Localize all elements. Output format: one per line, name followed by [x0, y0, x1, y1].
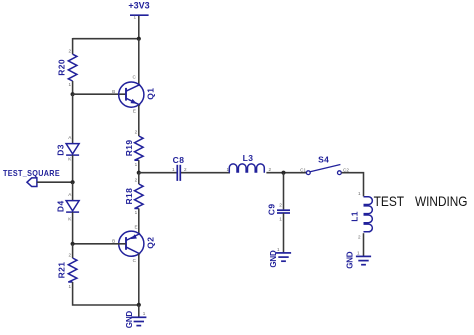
- svg-text:1: 1: [68, 82, 71, 87]
- svg-text:B: B: [112, 239, 115, 244]
- wire R18 to Q2 emitter: [138, 209, 140, 235]
- svg-text:GND: GND: [346, 251, 355, 269]
- svg-text:2: 2: [279, 202, 282, 207]
- svg-text:1: 1: [357, 251, 360, 256]
- svg-text:R21: R21: [56, 262, 66, 279]
- svg-text:GND: GND: [125, 311, 134, 329]
- svg-text:C8: C8: [173, 155, 185, 165]
- wire R21 bottom to ground rail: [73, 282, 139, 305]
- svg-text:Q1: Q1: [145, 88, 155, 100]
- svg-text:2: 2: [68, 49, 71, 54]
- wire R20 top stub: [72, 38, 74, 54]
- svg-text:1: 1: [143, 311, 146, 316]
- svg-text:D3: D3: [56, 144, 66, 156]
- svg-text:R20: R20: [57, 59, 67, 76]
- svg-text:S4: S4: [318, 155, 329, 165]
- svg-text:TEST_SQUARE: TEST_SQUARE: [3, 168, 60, 178]
- svg-text:E: E: [135, 224, 138, 229]
- diode D3: [56, 135, 80, 161]
- inductor L3: [226, 153, 271, 173]
- svg-text:C9: C9: [266, 204, 276, 216]
- junction bottom rail: [137, 303, 141, 307]
- wire mid junction to C8: [139, 172, 177, 174]
- resistor R21: [56, 252, 77, 289]
- svg-text:B: B: [112, 89, 115, 94]
- svg-text:+3V3: +3V3: [128, 1, 149, 11]
- svg-text:1: 1: [133, 15, 136, 20]
- svg-text:GND: GND: [269, 250, 278, 268]
- wire L1 to ground: [363, 233, 365, 256]
- svg-text:1: 1: [226, 167, 229, 172]
- wire GND stub left: [138, 305, 140, 317]
- wire C9 top: [283, 173, 285, 210]
- svg-text:2: 2: [135, 178, 138, 183]
- resistor R20: [57, 49, 77, 87]
- svg-text:L3: L3: [243, 153, 254, 163]
- diode D4: [56, 192, 80, 221]
- wire R20 bottom stub: [72, 81, 74, 94]
- wire Q1 emitter to R19: [138, 105, 140, 136]
- wire Q1 collector: [138, 39, 140, 85]
- svg-text:1: 1: [279, 217, 282, 222]
- switch S4: [300, 155, 349, 175]
- transistor Q1: [112, 75, 155, 114]
- wire mid junction to R18: [138, 173, 140, 184]
- power +3V3: [128, 1, 149, 20]
- svg-text:1: 1: [68, 284, 71, 289]
- junction D3/D4/port: [71, 180, 75, 184]
- svg-text:2: 2: [358, 234, 361, 239]
- junction R20/D3/Q1 base: [71, 92, 75, 96]
- wire R21 top stub: [72, 244, 74, 258]
- svg-text:TEST: TEST: [374, 193, 405, 209]
- resistor R18: [124, 178, 143, 216]
- svg-text:R19: R19: [124, 140, 134, 157]
- wire TEST_SQUARE to junction: [37, 181, 73, 183]
- ground (C9): [269, 247, 291, 267]
- wire L3 to S4: [266, 172, 306, 174]
- wire S4 to L1: [341, 173, 363, 197]
- svg-text:2: 2: [68, 252, 71, 257]
- svg-text:C2: C2: [343, 167, 349, 172]
- inductor L1: [349, 191, 372, 239]
- wire +3V3 stub: [138, 16, 140, 39]
- junction R19/R18/C8: [137, 171, 141, 175]
- resistor R19: [124, 130, 143, 167]
- junction +3V3/R20: [137, 37, 141, 41]
- wire Q2 base: [73, 243, 126, 245]
- svg-text:R18: R18: [124, 188, 134, 205]
- port TEST_SQUARE: [3, 168, 60, 187]
- svg-text:2: 2: [184, 167, 187, 172]
- svg-text:D4: D4: [56, 200, 66, 212]
- capacitor C8: [172, 155, 187, 181]
- wire R19 to mid junction: [138, 160, 140, 173]
- ground (left): [125, 311, 147, 329]
- svg-text:2: 2: [269, 167, 272, 172]
- svg-text:2: 2: [135, 130, 138, 135]
- junction D4/R21/Q2 base: [71, 242, 75, 246]
- wire top horizontal: [73, 38, 139, 40]
- junction L3/C9/S4: [281, 171, 285, 175]
- wire D3 anode: [72, 94, 74, 143]
- svg-text:1: 1: [135, 210, 138, 215]
- wire Q2 collector: [138, 254, 140, 306]
- svg-text:E: E: [133, 109, 136, 114]
- wire C8 to L3: [181, 172, 230, 174]
- wire D4 anode: [72, 182, 74, 200]
- wire Q1 base: [73, 93, 126, 95]
- svg-text:WINDING: WINDING: [415, 193, 468, 209]
- wire D3 cathode to node: [72, 155, 74, 182]
- ground (L1): [346, 251, 372, 269]
- svg-text:Q2: Q2: [145, 237, 155, 249]
- svg-text:L1: L1: [349, 211, 359, 222]
- capacitor C9: [266, 202, 290, 221]
- svg-text:1: 1: [358, 191, 361, 196]
- svg-text:C1: C1: [300, 167, 306, 172]
- wire D4 cathode: [72, 212, 74, 244]
- svg-text:1: 1: [277, 247, 280, 252]
- svg-text:1: 1: [135, 162, 138, 167]
- svg-text:1: 1: [172, 167, 175, 172]
- transistor Q2: [112, 224, 155, 263]
- wire C9 bottom to ground: [283, 213, 285, 253]
